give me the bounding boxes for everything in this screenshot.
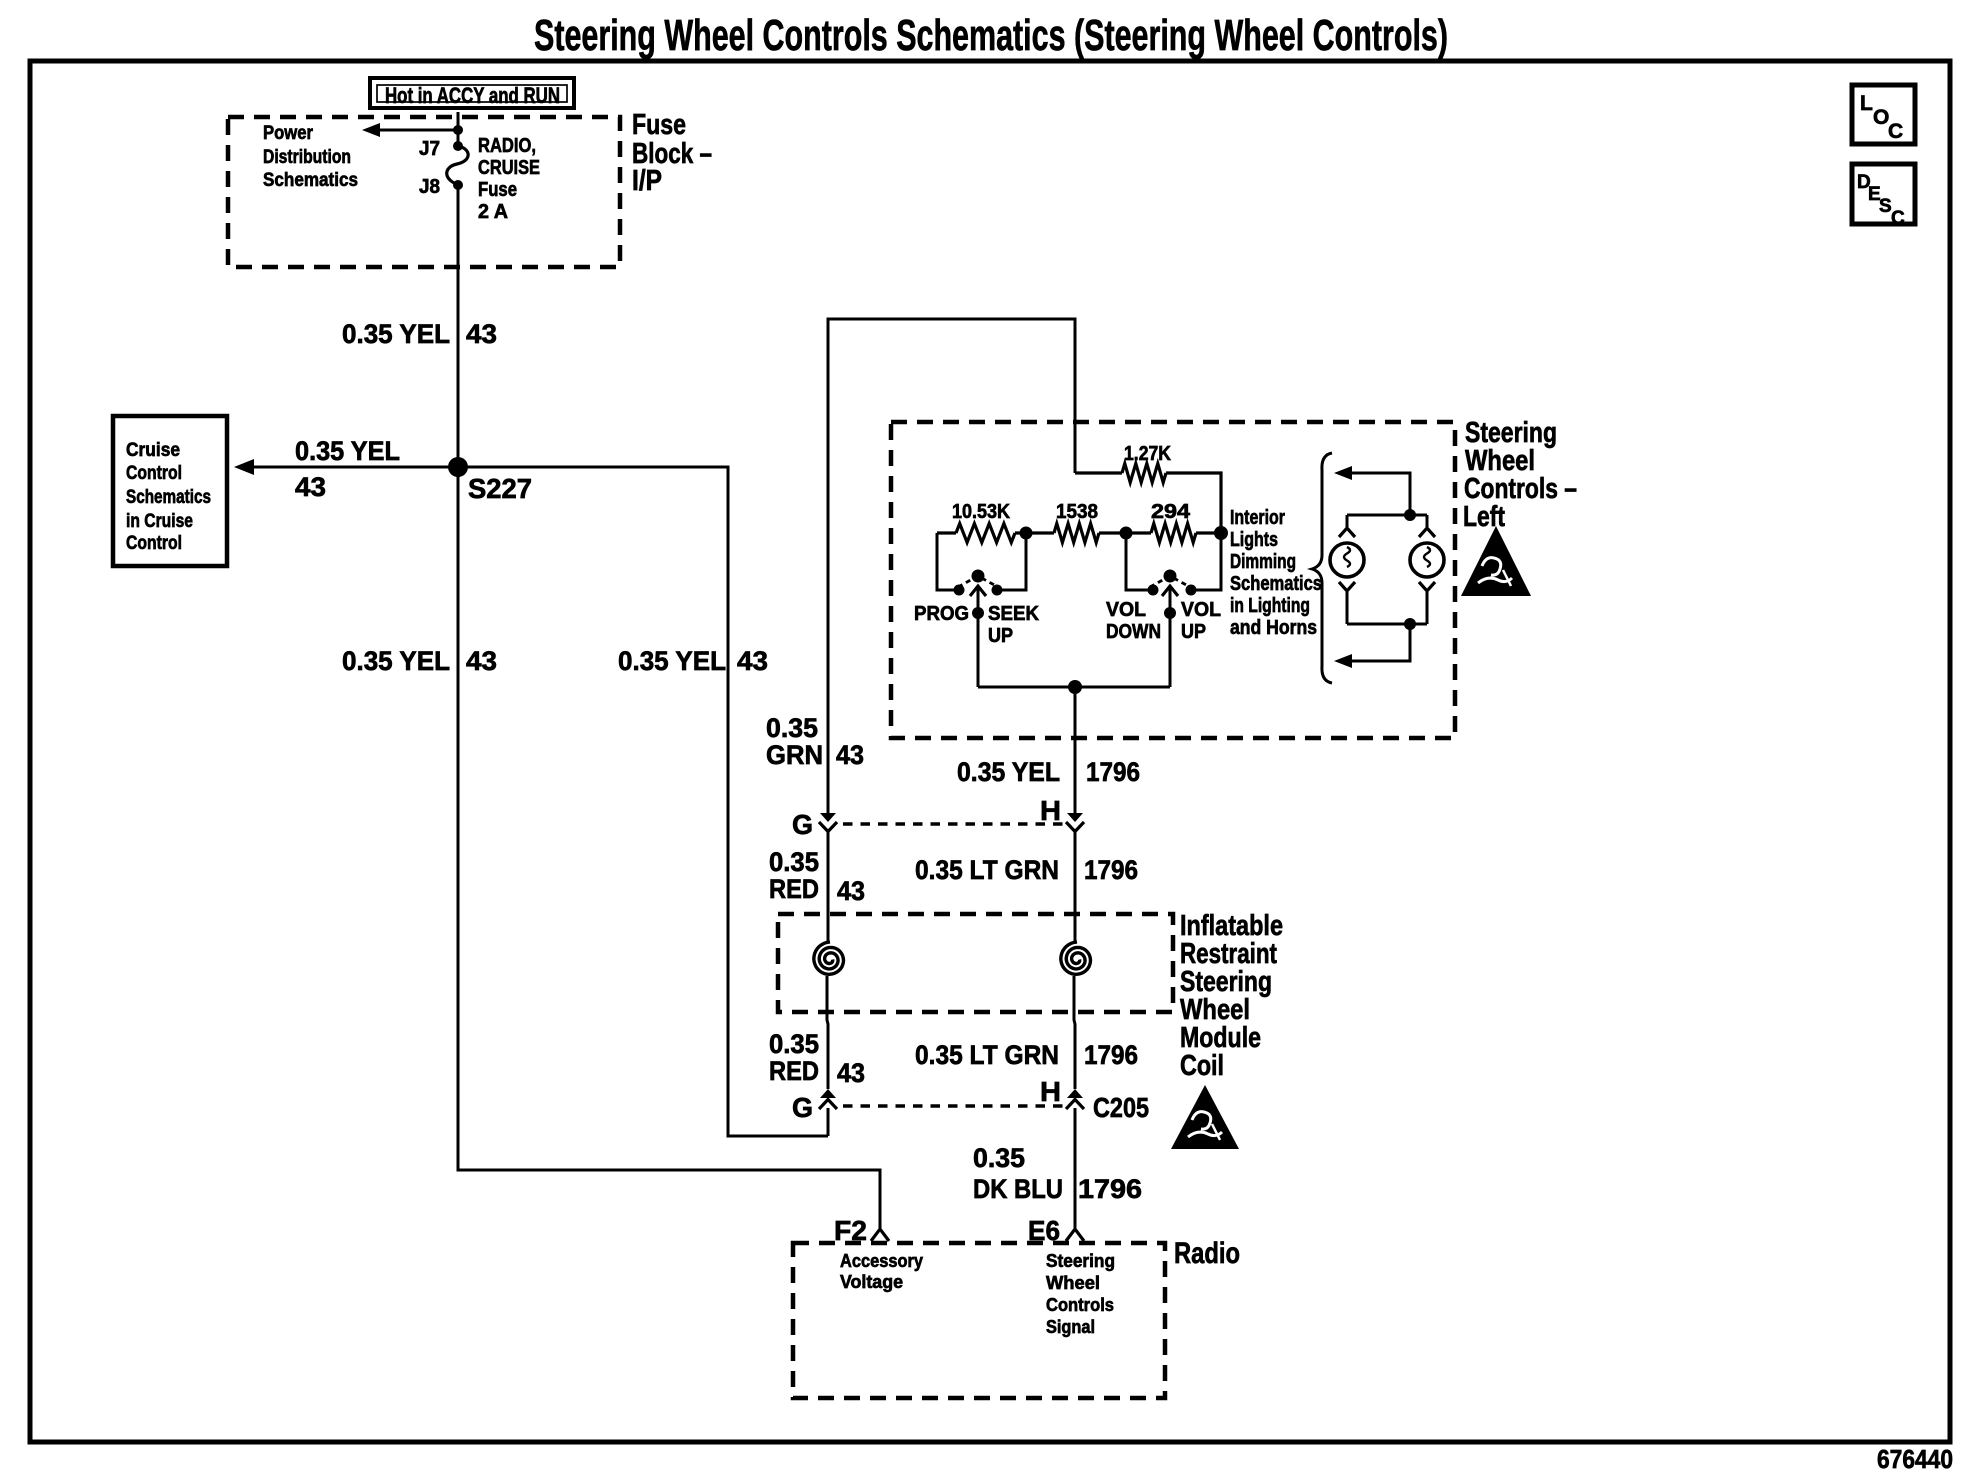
- wire label 0.35 YEL 1796: [957, 757, 1140, 787]
- radio dashed box: [793, 1243, 1165, 1398]
- switch SW1 PROG/SEEK UP: [954, 570, 1003, 688]
- wire arrow to cruise control: [250, 466, 458, 469]
- svg-text:Wheel: Wheel: [1046, 1273, 1100, 1293]
- svg-text:C205: C205: [1093, 1092, 1149, 1123]
- svg-text:J7: J7: [419, 138, 440, 160]
- svg-text:1796: 1796: [1084, 1040, 1138, 1070]
- pin F2: [834, 1215, 889, 1246]
- wire label 0.35 LT GRN 1796 (upper): [915, 855, 1138, 885]
- label Inflatable Restraint Steering Wheel Module Coil: [1180, 910, 1283, 1082]
- fuse block I/P dashed box: [228, 117, 620, 267]
- wire label 0.35 RED 43 (lower): [769, 1029, 865, 1088]
- svg-text:I/P: I/P: [632, 165, 662, 197]
- svg-text:DK BLU: DK BLU: [973, 1174, 1063, 1204]
- wire lamp top bar: [1347, 514, 1427, 517]
- node switch output: [1068, 680, 1082, 694]
- svg-text:RED: RED: [769, 874, 819, 904]
- svg-text:1796: 1796: [1084, 855, 1138, 885]
- svg-text:G: G: [792, 1092, 813, 1123]
- LOC tab box: [1852, 85, 1915, 144]
- svg-text:C: C: [1888, 120, 1903, 143]
- svg-text:Schematics: Schematics: [1230, 573, 1322, 595]
- connector C205 H (bottom): [1040, 1076, 1149, 1123]
- wire output down to H connector: [1074, 687, 1077, 813]
- svg-text:43: 43: [466, 319, 497, 349]
- steering wheel controls dashed box: [891, 422, 1455, 738]
- wire 294 junction to VOL UP contact: [1191, 533, 1221, 590]
- svg-text:CRUISE: CRUISE: [478, 157, 540, 179]
- svg-text:1796: 1796: [1086, 757, 1140, 787]
- svg-text:UP: UP: [1181, 621, 1206, 643]
- svg-text:VOL: VOL: [1106, 599, 1146, 621]
- coil spiral left: [814, 942, 844, 974]
- wire label 0.35 YEL 43 (to cruise): [295, 436, 400, 502]
- label Fuse Block - I/P: [632, 109, 712, 197]
- svg-text:Radio: Radio: [1174, 1237, 1240, 1270]
- svg-text:0.35 YEL: 0.35 YEL: [957, 757, 1060, 787]
- svg-text:43: 43: [837, 1058, 865, 1088]
- lamp DL2: [1410, 515, 1444, 624]
- warning triangle (coil): [1171, 1085, 1239, 1149]
- inflatable restraint coil dashed box: [778, 914, 1173, 1012]
- svg-text:0.35 YEL: 0.35 YEL: [342, 646, 450, 676]
- svg-text:and Horns: and Horns: [1230, 617, 1317, 639]
- power label box "Hot in ACCY and RUN": [370, 78, 574, 108]
- wire lamp return with arrow: [1348, 624, 1410, 661]
- svg-text:Dimming: Dimming: [1230, 551, 1296, 573]
- brace: [1312, 453, 1332, 683]
- wire label 0.35 YEL 43 (right lower): [618, 646, 768, 676]
- wire arrow left: [374, 129, 458, 132]
- svg-text:676440: 676440: [1877, 1444, 1953, 1472]
- svg-text:43: 43: [466, 646, 497, 676]
- wire H2 down: [1074, 976, 1075, 1089]
- coil spiral right: [1061, 942, 1091, 974]
- wire G down: [827, 831, 830, 942]
- connector C pass H (top): [1040, 795, 1084, 832]
- svg-text:0.35 LT GRN: 0.35 LT GRN: [915, 855, 1059, 885]
- svg-text:O: O: [1873, 106, 1889, 129]
- svg-text:Distribution: Distribution: [263, 147, 351, 168]
- wire label 0.35 YEL 43 (left lower): [342, 646, 497, 676]
- switch SW1 labels: [914, 603, 1040, 647]
- wire label 0.35 GRN 43: [766, 713, 864, 770]
- connector C pass G (top): [792, 809, 837, 840]
- svg-text:L: L: [1860, 92, 1873, 115]
- wire from fuse top: [457, 112, 460, 146]
- svg-text:Hot in ACCY and RUN: Hot in ACCY and RUN: [385, 83, 560, 108]
- fuse F (RADIO, CRUISE Fuse 2 A): [447, 146, 468, 185]
- svg-text:SEEK: SEEK: [988, 603, 1040, 625]
- wire 10.53K right leg to SEEK UP contact: [997, 533, 1026, 590]
- svg-text:0.35: 0.35: [766, 713, 818, 743]
- svg-text:S227: S227: [468, 473, 532, 504]
- svg-text:Signal: Signal: [1046, 1317, 1095, 1337]
- node lamp bottom: [1404, 618, 1416, 630]
- svg-text:Schematics: Schematics: [126, 487, 211, 508]
- wire fuse down to S227: [457, 185, 460, 467]
- wire lamp feed top with arrow: [1348, 473, 1410, 515]
- svg-text:Schematics: Schematics: [263, 170, 358, 191]
- svg-text:Coil: Coil: [1180, 1050, 1224, 1082]
- node after 1538: [1120, 527, 1133, 540]
- svg-text:0.35 LT GRN: 0.35 LT GRN: [915, 1040, 1059, 1070]
- wire label 0.35 LT GRN 1796 (lower): [915, 1040, 1138, 1070]
- wire S227 down to F2: [458, 467, 880, 1228]
- wire 10.53K left leg to PROG contact: [937, 533, 959, 590]
- svg-text:Voltage: Voltage: [840, 1272, 903, 1292]
- svg-text:0.35: 0.35: [769, 1029, 819, 1059]
- fuse value label: [478, 135, 540, 223]
- svg-text:S: S: [1879, 196, 1892, 217]
- wire H down: [1074, 831, 1077, 942]
- svg-text:0.35 YEL: 0.35 YEL: [295, 436, 400, 466]
- pin J8: [453, 180, 463, 190]
- pin E6 label Steering Wheel Controls Signal: [1046, 1251, 1115, 1337]
- svg-text:Steering: Steering: [1046, 1251, 1115, 1271]
- node lamp top: [1404, 509, 1416, 521]
- wire switch common bar: [978, 686, 1170, 689]
- svg-text:Left: Left: [1463, 501, 1505, 533]
- svg-text:Fuse: Fuse: [478, 179, 517, 201]
- wire S227 to right branch: [458, 467, 828, 1136]
- label Interior Lights Dimming Schematics: [1230, 507, 1322, 639]
- node J7 junction with arrow to Power Distribution Schematics: [453, 125, 463, 135]
- wire 1538 junction to VOL DOWN contact: [1126, 533, 1153, 590]
- svg-text:H: H: [1040, 795, 1061, 826]
- resistor 1.27K: [1075, 471, 1122, 474]
- svg-text:Power: Power: [263, 123, 314, 144]
- svg-text:0.35 YEL: 0.35 YEL: [342, 319, 450, 349]
- node after 10.53K: [1020, 527, 1033, 540]
- wire G2 to yel riser: [827, 1108, 830, 1136]
- pin J7: [453, 141, 463, 151]
- svg-text:H: H: [1040, 1076, 1061, 1107]
- svg-text:1796: 1796: [1078, 1174, 1142, 1204]
- lamp DL1: [1330, 515, 1364, 624]
- resistor 10.53K: [937, 531, 956, 534]
- wire label 0.35 DK BLU 1796: [973, 1143, 1142, 1204]
- svg-text:GRN: GRN: [766, 740, 823, 770]
- svg-text:UP: UP: [988, 625, 1013, 647]
- svg-text:Control: Control: [126, 533, 182, 554]
- svg-text:1.27K: 1.27K: [1124, 443, 1171, 465]
- node 294 / 1.27K junction: [1214, 526, 1228, 540]
- svg-text:Control: Control: [126, 463, 182, 484]
- pin F2 label Accessory Voltage: [840, 1251, 923, 1292]
- svg-text:Fuse: Fuse: [632, 109, 686, 141]
- svg-text:RADIO,: RADIO,: [478, 135, 536, 157]
- DESC tab box: [1852, 164, 1915, 229]
- svg-text:43: 43: [836, 740, 864, 770]
- connector dashed line (top): [843, 822, 1065, 826]
- svg-text:in Lighting: in Lighting: [1230, 595, 1310, 617]
- label Steering Wheel Controls - Left: [1463, 417, 1577, 533]
- connector C205 G (bottom): [792, 1089, 837, 1123]
- svg-text:J8: J8: [419, 176, 440, 198]
- svg-text:G: G: [792, 809, 813, 840]
- wire G2 down: [827, 976, 828, 1089]
- svg-text:2 A: 2 A: [478, 201, 508, 223]
- wire lamp bottom bar: [1347, 623, 1427, 626]
- svg-text:Accessory: Accessory: [840, 1251, 923, 1271]
- wire label 0.35 RED 43 (upper): [769, 847, 865, 906]
- svg-text:0.35: 0.35: [973, 1143, 1025, 1173]
- svg-text:1538: 1538: [1056, 501, 1098, 523]
- svg-text:43: 43: [837, 876, 865, 906]
- svg-text:Cruise: Cruise: [126, 440, 180, 461]
- switch SW2 labels: [1106, 599, 1221, 643]
- cruise control box: [113, 416, 227, 566]
- svg-text:43: 43: [737, 646, 768, 676]
- svg-text:Interior: Interior: [1230, 507, 1285, 529]
- svg-text:VOL: VOL: [1181, 599, 1221, 621]
- connector dashed line (bottom): [843, 1104, 1065, 1108]
- warning triangle (steering wheel controls): [1461, 526, 1531, 596]
- svg-text:0.35 YEL: 0.35 YEL: [618, 646, 726, 676]
- svg-text:43: 43: [295, 472, 326, 502]
- svg-text:PROG: PROG: [914, 603, 969, 625]
- resistor 294: [1151, 524, 1196, 543]
- wire label 0.35 YEL 43 (upper): [342, 319, 497, 349]
- svg-text:DOWN: DOWN: [1106, 621, 1161, 643]
- resistor 1538: [1054, 524, 1099, 543]
- wire H2 down to E6: [1074, 1108, 1077, 1228]
- svg-text:Steering Wheel Controls Schema: Steering Wheel Controls Schematics (Stee…: [534, 11, 1448, 60]
- svg-text:RED: RED: [769, 1056, 819, 1086]
- svg-text:Lights: Lights: [1230, 529, 1278, 551]
- switch SW2 VOL DOWN/VOL UP: [1148, 570, 1197, 688]
- svg-text:Controls: Controls: [1046, 1295, 1114, 1315]
- svg-text:294: 294: [1151, 501, 1191, 523]
- fuse block label text: [263, 123, 358, 191]
- svg-text:0.35: 0.35: [769, 847, 819, 877]
- svg-text:C: C: [1891, 208, 1905, 229]
- svg-text:in Cruise: in Cruise: [126, 511, 193, 532]
- pin E6: [1028, 1215, 1084, 1246]
- svg-text:10.53K: 10.53K: [952, 501, 1010, 523]
- node S227: [448, 457, 468, 477]
- wire GRN riser top: [828, 319, 1075, 813]
